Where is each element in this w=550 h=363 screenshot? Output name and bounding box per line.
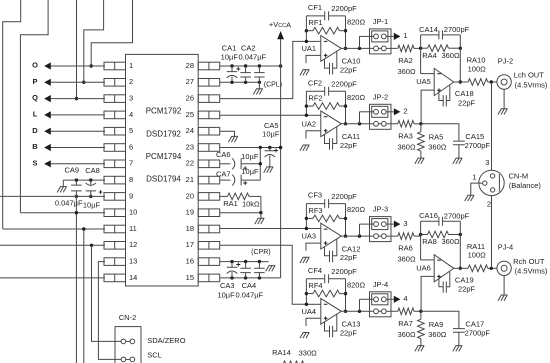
svg-text:1: 1 — [129, 61, 133, 70]
capacitor CA8 10uF — [89, 178, 92, 181]
svg-text:25: 25 — [186, 110, 194, 119]
wire pin 23 row to +VccA rail — [220, 147, 281, 149]
svg-text:1: 1 — [472, 173, 476, 182]
svg-text:820Ω: 820Ω — [347, 93, 366, 102]
ground at CPL node — [253, 82, 262, 94]
svg-text:RF4: RF4 — [308, 281, 322, 290]
wire UA1 non-inverting input to ground — [306, 55, 321, 63]
svg-text:2: 2 — [129, 77, 133, 86]
wire UA4 inverting input — [306, 303, 320, 305]
wire UA4 non-inverting input to ground — [306, 318, 321, 326]
svg-text:17: 17 — [186, 240, 194, 249]
wire pin 26 to UA1 inverting input — [220, 41, 307, 98]
wire pin 17 to UA4 inverting input — [220, 245, 307, 304]
svg-text:(Balance): (Balance) — [509, 181, 542, 190]
svg-text:P: P — [32, 77, 37, 86]
op-amp UA4 — [321, 298, 342, 324]
pin 22 box — [198, 160, 220, 168]
svg-text:26: 26 — [186, 94, 194, 103]
svg-text:RA4: RA4 — [422, 51, 437, 60]
capacitor CA10 22pF under op-amp — [325, 59, 330, 68]
svg-text:18: 18 — [186, 224, 194, 233]
resistor RA7 360 Ohm — [398, 308, 414, 315]
svg-text:2200pF: 2200pF — [331, 267, 357, 276]
resistor RF3 820 Ohm feedback — [306, 217, 313, 219]
jack PJ-2 ground — [498, 89, 508, 114]
node pin 11 row — [82, 227, 85, 230]
svg-text:CN-M: CN-M — [509, 171, 529, 180]
resistor RA11 100 Ohm output — [454, 267, 468, 269]
pin 21 box — [198, 176, 220, 184]
resistor RA2 360 Ohm — [398, 45, 414, 52]
svg-text:11: 11 — [129, 224, 137, 233]
svg-text:28: 28 — [186, 61, 194, 70]
IC U1 PCM1792/DSD1792/PCM1794/DSD1794 body — [126, 54, 199, 286]
svg-text:DSD1794: DSD1794 — [146, 175, 181, 184]
svg-text:7: 7 — [129, 159, 133, 168]
op-amp UA5 — [434, 68, 454, 95]
node pin 10 row — [75, 211, 78, 214]
wire UA3 feedback left column — [305, 204, 307, 229]
svg-text:360Ω: 360Ω — [397, 142, 416, 151]
svg-text:RA8: RA8 — [422, 237, 437, 246]
svg-text:RF2: RF2 — [308, 94, 322, 103]
svg-text:330Ω: 330Ω — [299, 348, 318, 357]
pin 3 box — [104, 95, 126, 103]
wire pin 13 to CN-2 SCL — [98, 262, 121, 360]
node RA/C junction — [419, 310, 422, 313]
capacitor CF3 2200pF in feedback — [306, 203, 324, 205]
resistor RA3 360 Ohm — [398, 121, 414, 128]
wire UA4 feedback right column — [345, 279, 347, 312]
pin 20 box — [198, 193, 220, 201]
svg-text:CF1: CF1 — [308, 3, 322, 12]
op-amp UA1 — [321, 36, 342, 62]
pin 11 box — [104, 225, 126, 233]
wire CA6/CA7 riser to pin 23 row — [259, 148, 261, 181]
test point arrow 3 — [394, 221, 401, 228]
svg-text:360Ω: 360Ω — [428, 330, 447, 339]
pin 4 box — [104, 111, 126, 119]
svg-text:2700pF: 2700pF — [465, 329, 491, 338]
svg-text:Q: Q — [32, 93, 38, 102]
svg-text:2200pF: 2200pF — [331, 80, 357, 89]
wire CN-M pin 2 to Rch output — [491, 196, 493, 269]
svg-text:RA1: RA1 — [223, 199, 238, 208]
svg-text:UA1: UA1 — [302, 44, 317, 53]
resistor RF2 820 Ohm feedback — [306, 105, 313, 107]
wire row pin 11 — [3, 228, 105, 230]
svg-text:UA5: UA5 — [416, 77, 431, 86]
wire net-4 staircase to pin 2 — [84, 0, 104, 82]
svg-text:CA7: CA7 — [216, 170, 231, 179]
svg-text:10µF: 10µF — [262, 129, 280, 138]
svg-text:22pF: 22pF — [340, 141, 358, 150]
svg-text:360Ω: 360Ω — [428, 142, 447, 151]
capacitor CA12 22pF under op-amp — [325, 247, 330, 256]
svg-text:(4.5Vrms): (4.5Vrms) — [515, 267, 548, 276]
svg-text:CA13: CA13 — [342, 320, 361, 329]
svg-text:CA16: CA16 — [419, 211, 438, 220]
svg-text:CA9: CA9 — [65, 165, 80, 174]
svg-text:CA12: CA12 — [342, 244, 361, 253]
svg-text:CA17: CA17 — [465, 320, 484, 329]
resistor RA10 100 Ohm output — [454, 81, 468, 83]
jumper JP-3 — [359, 224, 361, 236]
svg-text:2200pF: 2200pF — [331, 192, 357, 201]
wire UA2 feedback left column — [305, 91, 307, 115]
wire pin 9 row from left edge — [0, 195, 105, 197]
svg-text:CA19: CA19 — [455, 276, 474, 285]
svg-text:RA6: RA6 — [398, 244, 413, 253]
svg-text:820Ω: 820Ω — [347, 205, 366, 214]
svg-text:4: 4 — [129, 110, 133, 119]
svg-text:21: 21 — [186, 175, 194, 184]
svg-text:2700pF: 2700pF — [444, 25, 470, 34]
pin 23 box — [198, 144, 220, 152]
svg-text:10: 10 — [129, 208, 137, 217]
node RA/C junction — [419, 122, 422, 125]
wire Lch output to CN-M pin 3 — [491, 82, 493, 170]
svg-text:360Ω: 360Ω — [397, 330, 416, 339]
capacitor CPR third — [254, 262, 265, 278]
capacitor CA13 22pF under op-amp — [325, 322, 330, 331]
wire net-1 staircase to pin 11 — [3, 0, 21, 229]
pin 6 box — [104, 144, 126, 152]
wire UA3 inverting input — [306, 228, 320, 230]
pin 14 box — [104, 274, 126, 282]
svg-text:SCL: SCL — [147, 350, 162, 359]
svg-text:15: 15 — [186, 273, 194, 282]
svg-text:9: 9 — [129, 191, 133, 200]
svg-text:4: 4 — [403, 294, 407, 303]
svg-text:820Ω: 820Ω — [347, 280, 366, 289]
node on pin 3 row — [75, 97, 78, 100]
svg-text:JP-3: JP-3 — [373, 205, 388, 214]
resistor RF1 820 Ohm feedback — [306, 30, 313, 32]
pin 26 box — [198, 95, 220, 103]
resistor RA4 360 Ohm feedback — [421, 47, 428, 49]
svg-text:UA2: UA2 — [302, 119, 317, 128]
svg-text:0.047µF: 0.047µF — [235, 291, 263, 300]
svg-text:19: 19 — [186, 208, 194, 217]
wire non-inverting input of output op-amp down to node — [421, 276, 434, 311]
wire UA1 feedback left column — [305, 16, 307, 42]
wire DEM vertical from CA9 down through pin 10 row — [75, 196, 77, 363]
capacitor CA2 0.047uF — [240, 66, 251, 82]
svg-text:100Ω: 100Ω — [468, 251, 487, 260]
test point arrow 1 — [394, 33, 401, 40]
svg-text:CA18: CA18 — [455, 89, 474, 98]
pin 19 box — [198, 209, 220, 217]
svg-text:10µF: 10µF — [217, 291, 235, 300]
capacitor CA18 22pF under op-amp — [439, 93, 443, 101]
svg-text:2: 2 — [487, 200, 491, 209]
wire UA1 feedback right column — [345, 16, 347, 49]
wire UA2 output to jumper JP-2 — [341, 123, 369, 125]
test point arrow 2 — [394, 108, 401, 115]
svg-text:14: 14 — [129, 273, 137, 282]
capacitor CA11 22pF under op-amp — [325, 134, 330, 143]
svg-text:2200pF: 2200pF — [331, 4, 357, 13]
capacitor CPL third — [254, 66, 265, 82]
svg-text:0.047µF: 0.047µF — [55, 199, 83, 208]
svg-text:10µF: 10µF — [241, 152, 259, 161]
svg-text:CA4: CA4 — [242, 281, 257, 290]
wire pin 8 row with ground — [63, 179, 105, 181]
wire CN-M pin 1 to ground — [471, 183, 483, 195]
capacitor CA14 2700pF feedback — [421, 34, 439, 36]
svg-text:13: 13 — [129, 257, 137, 266]
svg-text:360Ω: 360Ω — [441, 51, 460, 60]
wire pin 27 row (CPL) — [220, 81, 260, 83]
svg-text:CN-2: CN-2 — [119, 313, 137, 322]
svg-text:S: S — [32, 158, 37, 167]
wire UA3 output to jumper JP-3 — [341, 235, 369, 237]
op-amp UA2 — [321, 111, 342, 137]
svg-text:5: 5 — [129, 126, 133, 135]
capacitor CA5 10uF to ground — [265, 148, 276, 151]
svg-text:CA10: CA10 — [342, 57, 361, 66]
svg-text:1: 1 — [403, 31, 407, 40]
capacitor CA9 0.047uF — [75, 178, 78, 181]
pin 5 box — [104, 127, 126, 135]
resistor RA6 360 Ohm — [398, 233, 414, 240]
svg-text:CF3: CF3 — [308, 191, 322, 200]
svg-text:O: O — [32, 61, 38, 70]
capacitor CA19 22pF under op-amp — [439, 279, 443, 287]
wire pin 19 row to ground junction — [220, 212, 261, 214]
svg-text:10µF: 10µF — [221, 52, 239, 61]
op-amp UA3 — [321, 223, 342, 249]
wire net-3 vertical to pin 3 — [76, 0, 78, 99]
node on pin 1 row — [90, 64, 93, 67]
resistor RA8 360 Ohm feedback — [421, 234, 428, 236]
resistor RF4 820 Ohm feedback — [306, 293, 313, 295]
resistor RA1 10kOhm from pin 20 — [220, 195, 228, 197]
wire SDA riser to CN-2 — [92, 245, 122, 341]
svg-text:CF2: CF2 — [308, 78, 322, 87]
pin 17 box — [198, 242, 220, 250]
wire pin 28 row to +VccA rail — [220, 65, 281, 67]
wire pin 12 row from left edge — [0, 244, 105, 246]
capacitor CA1 10uF — [227, 66, 238, 72]
jumper JP-2 — [359, 112, 361, 124]
svg-text:2700pF: 2700pF — [465, 141, 491, 150]
wire pin 24 to ground — [220, 131, 235, 136]
wire non-inverting input of output op-amp down to node — [421, 90, 434, 124]
svg-text:22pF: 22pF — [458, 285, 476, 294]
svg-text:DSD1792: DSD1792 — [146, 129, 181, 138]
jack PJ-2 — [497, 75, 511, 89]
svg-text:PCM1792: PCM1792 — [146, 107, 182, 116]
capacitor CF1 2200pF in feedback — [306, 15, 324, 17]
pin 10 box — [104, 209, 126, 217]
wire row pin 10 — [20, 212, 105, 214]
svg-text:RA2: RA2 — [398, 56, 413, 65]
svg-text:3: 3 — [485, 158, 489, 167]
svg-text:10µF: 10µF — [83, 200, 101, 209]
svg-text:CA14: CA14 — [419, 25, 438, 34]
wire pin 15 row to +VccA rail — [220, 277, 281, 279]
svg-text:CA8: CA8 — [85, 166, 100, 175]
wire UA5 feedback right column to output — [459, 35, 461, 82]
wire UA6 inverting node column — [420, 221, 422, 260]
svg-text:RA11: RA11 — [467, 242, 485, 251]
svg-text:PJ-2: PJ-2 — [498, 56, 513, 65]
svg-text:2700pF: 2700pF — [444, 212, 470, 221]
svg-text:CF4: CF4 — [308, 266, 322, 275]
svg-text:(4.5Vrms): (4.5Vrms) — [515, 80, 548, 89]
svg-text:CA11: CA11 — [342, 132, 360, 141]
wire UA3 non-inverting input to ground — [306, 243, 321, 251]
pin 12 box — [104, 242, 126, 250]
svg-text:JP-1: JP-1 — [373, 17, 388, 26]
svg-text:CA6: CA6 — [216, 150, 231, 159]
capacitor CA15 2700pF to ground — [421, 124, 459, 141]
svg-text:(CPL): (CPL) — [264, 82, 282, 89]
wire UA1 inverting input — [306, 40, 320, 42]
svg-text:PCM1794: PCM1794 — [146, 152, 182, 161]
svg-text:2: 2 — [403, 107, 407, 116]
pin 27 box — [198, 79, 220, 87]
jumper JP-1 — [359, 36, 361, 48]
connector CN-M (Balance) XLR — [479, 170, 504, 195]
capacitor CA3 10uF — [227, 262, 238, 268]
svg-text:22pF: 22pF — [340, 65, 358, 74]
svg-text:L: L — [33, 110, 38, 119]
wire UA4 feedback left column — [305, 279, 307, 305]
wire net-2 staircase to pin 10 — [20, 0, 48, 213]
svg-text:0.047µF: 0.047µF — [238, 52, 266, 61]
svg-text:10kΩ: 10kΩ — [242, 200, 260, 209]
wire pin 14 row from left edge — [0, 277, 105, 279]
svg-text:23: 23 — [186, 142, 194, 151]
wire UA1 output to jumper JP-1 — [341, 47, 369, 49]
svg-text:RA9: RA9 — [429, 320, 444, 329]
svg-text:(CPR): (CPR) — [251, 249, 270, 256]
svg-text:SDA/ZERO: SDA/ZERO — [147, 336, 186, 345]
svg-text:100Ω: 100Ω — [468, 64, 487, 73]
pin 1 box — [104, 62, 126, 70]
wire pin 18 to UA3 inverting input — [220, 228, 307, 230]
wire UA5 inverting node column — [420, 35, 422, 74]
pin 18 box — [198, 225, 220, 233]
wire pin 16 row (CPR) — [220, 261, 269, 263]
pin 24 box — [198, 127, 220, 135]
wire pin 25 to UA2 inverting input — [220, 114, 307, 116]
jack PJ-4 ground — [498, 276, 508, 301]
wire UA2 inverting input — [306, 114, 320, 116]
svg-text:360Ω: 360Ω — [397, 67, 416, 76]
svg-text:16: 16 — [186, 257, 194, 266]
wire UA6 feedback right column to output — [459, 221, 461, 268]
svg-text:3: 3 — [403, 219, 407, 228]
pin 25 box — [198, 111, 220, 119]
svg-text:22: 22 — [186, 159, 194, 168]
wire UA2 non-inverting input to ground — [306, 131, 321, 139]
svg-text:6: 6 — [129, 142, 133, 151]
svg-text:Lch OUT: Lch OUT — [514, 71, 544, 80]
svg-text:22pF: 22pF — [340, 328, 358, 337]
capacitor CA6 10uF from pin 22 — [220, 163, 231, 165]
svg-text:RF3: RF3 — [308, 206, 322, 215]
wire +VccA rail vertical — [280, 39, 282, 278]
capacitor CF4 2200pF in feedback — [306, 278, 324, 280]
svg-text:JP-2: JP-2 — [373, 92, 388, 101]
svg-text:360Ω: 360Ω — [397, 255, 416, 264]
resistor RA5 360 Ohm to ground — [420, 124, 422, 132]
capacitor CA4 0.047uF — [240, 262, 251, 278]
jack PJ-4 — [497, 261, 511, 275]
svg-text:UA6: UA6 — [416, 263, 431, 272]
test point arrow 4 — [394, 296, 401, 303]
svg-text:10µF: 10µF — [241, 167, 259, 176]
svg-text:12: 12 — [129, 240, 137, 249]
wire UA4 output to jumper JP-4 — [341, 310, 369, 312]
svg-text:22pF: 22pF — [340, 253, 358, 262]
node on pin 2 row — [82, 81, 85, 84]
node pin 12 row to SDA riser — [90, 244, 93, 247]
svg-text:UA3: UA3 — [302, 232, 317, 241]
svg-text:RF1: RF1 — [308, 18, 322, 27]
svg-text:20: 20 — [186, 191, 194, 200]
wire UA2 feedback right column — [345, 91, 347, 124]
pin 13 box — [104, 258, 126, 266]
svg-text:8: 8 — [129, 175, 133, 184]
svg-text:D: D — [32, 126, 38, 135]
capacitor CA16 2700pF feedback — [421, 220, 439, 222]
svg-text:Rch OUT: Rch OUT — [513, 257, 545, 266]
svg-text:RA3: RA3 — [398, 131, 413, 140]
wire vertical from pin 11 row to bottom — [83, 229, 85, 363]
resistor RA9 360 Ohm to ground — [420, 311, 422, 319]
capacitor CF2 2200pF in feedback — [306, 90, 324, 92]
svg-text:24: 24 — [186, 126, 194, 135]
svg-text:RA14: RA14 — [272, 348, 291, 357]
svg-text:PJ-4: PJ-4 — [498, 243, 513, 252]
svg-text:RA10: RA10 — [467, 56, 486, 65]
pin 8 box — [104, 176, 126, 184]
svg-text:CA3: CA3 — [220, 281, 235, 290]
svg-text:JP-4: JP-4 — [373, 280, 388, 289]
svg-text:820Ω: 820Ω — [347, 18, 366, 27]
svg-text:RA5: RA5 — [429, 133, 444, 142]
svg-text:360Ω: 360Ω — [441, 237, 460, 246]
wire net-5 staircase to pin 1 — [91, 0, 132, 66]
pin 2 box — [104, 79, 126, 87]
pin 16 box — [198, 258, 220, 266]
capacitor CA17 2700pF to ground — [421, 311, 459, 328]
svg-text:UA4: UA4 — [302, 307, 317, 316]
svg-text:3: 3 — [129, 94, 133, 103]
pin 15 box — [198, 274, 220, 282]
pin 9 box — [104, 193, 126, 201]
wire UA3 feedback right column — [345, 204, 347, 237]
pin 7 box — [104, 160, 126, 168]
capacitor CA7 10uF from pin 21 — [220, 179, 231, 181]
svg-text:CA15: CA15 — [465, 132, 484, 141]
jumper JP-4 — [359, 299, 361, 311]
pin 28 box — [198, 62, 220, 70]
svg-text:B: B — [32, 142, 38, 151]
svg-text:RA7: RA7 — [398, 319, 413, 328]
svg-text:22pF: 22pF — [458, 98, 476, 107]
svg-text:27: 27 — [186, 77, 194, 86]
op-amp UA6 — [434, 255, 454, 282]
